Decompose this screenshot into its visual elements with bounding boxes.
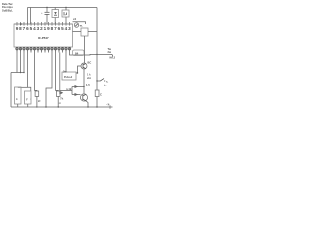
resistor R4 bbox=[56, 91, 63, 107]
wire pin16 L bbox=[70, 53, 98, 56]
IC bottom pin circles bbox=[16, 48, 71, 50]
svg-text:n.1k: n.1k bbox=[66, 87, 72, 91]
svg-text:+.: +. bbox=[104, 84, 107, 87]
wire right rail bbox=[96, 8, 98, 91]
IC bottom pin stems bbox=[17, 47, 70, 53]
wire Q2 emitter bbox=[86, 101, 88, 107]
node junction D2 top bbox=[65, 7, 66, 8]
svg-text:w.: w. bbox=[79, 23, 83, 27]
node junction bus2 bbox=[23, 72, 24, 73]
diode D1 box bbox=[52, 8, 59, 25]
svg-text:C: C bbox=[100, 93, 102, 97]
IC U1 body bbox=[14, 24, 73, 47]
wire pin6 down bbox=[35, 53, 37, 92]
svg-text:zi: zi bbox=[59, 101, 61, 105]
transistor Q1 bbox=[81, 61, 91, 70]
wire rail drop left b bbox=[30, 8, 32, 25]
resistor R2 bbox=[25, 91, 32, 107]
svg-text:7k: 7k bbox=[60, 96, 64, 100]
wire diode row lower bbox=[72, 94, 81, 96]
wire pin15 down bbox=[65, 53, 67, 73]
node junction e1 bbox=[83, 86, 84, 87]
svg-text:s.: s. bbox=[106, 81, 108, 84]
wire bottom rail bbox=[11, 106, 113, 108]
node junction rail q2 bbox=[87, 106, 88, 107]
node junction rail r4 bbox=[58, 106, 59, 107]
crystal X1 body bbox=[74, 23, 83, 28]
svg-text:IC-P547: IC-P547 bbox=[38, 36, 49, 40]
svg-text:SuB/BcL: SuB/BcL bbox=[2, 8, 13, 12]
resistor R5 bbox=[95, 90, 102, 97]
svg-text:ctz: ctz bbox=[87, 76, 91, 80]
wire rail drop left a bbox=[27, 8, 29, 25]
net label box bbox=[73, 50, 85, 56]
svg-text:r: r bbox=[30, 97, 31, 101]
wire link vertical bbox=[71, 87, 73, 95]
battery B1 box bbox=[62, 8, 69, 25]
wire pin4 down bbox=[28, 53, 31, 92]
wire pin2 down bbox=[20, 53, 22, 73]
node junction base bbox=[77, 72, 78, 73]
wire base to pot bbox=[76, 72, 78, 74]
crystal X1 wire bbox=[73, 22, 86, 24]
IC U1 top edge bbox=[14, 23, 73, 25]
svg-text:9876543219876543: 9876543219876543 bbox=[16, 26, 72, 31]
transistor Q2 bbox=[80, 94, 87, 101]
svg-text:No.2: No.2 bbox=[110, 55, 116, 59]
svg-text:F: F bbox=[26, 98, 28, 102]
wire diode row upper bbox=[72, 86, 84, 88]
diode D5 bbox=[75, 93, 79, 96]
node junction pin3 top bbox=[20, 23, 22, 25]
svg-text:84: 84 bbox=[75, 51, 79, 55]
diode D3 mark bbox=[61, 91, 64, 94]
svg-text:BC: BC bbox=[88, 61, 92, 65]
relay K1 box bbox=[73, 28, 98, 63]
wire top supply rail bbox=[28, 7, 98, 9]
wire pin3 down bbox=[23, 53, 25, 73]
svg-text:1.5: 1.5 bbox=[86, 83, 90, 87]
wire Q1 base bbox=[78, 66, 82, 73]
wire pin12 down bbox=[56, 53, 59, 92]
wire pin11 down jog bbox=[46, 53, 52, 108]
wire R1 feed bbox=[18, 86, 28, 88]
wire mid right branch bbox=[97, 80, 100, 82]
svg-text:P.du.d: P.du.d bbox=[64, 75, 72, 79]
wire right branch upper bbox=[97, 53, 112, 55]
capacitor C3 bbox=[41, 8, 50, 25]
svg-text:+: + bbox=[41, 11, 43, 15]
potentiometer P1 box bbox=[62, 69, 76, 80]
wire left drop to rail bbox=[10, 73, 12, 108]
node junction bus1 bbox=[20, 72, 21, 73]
wire gnd bus bbox=[11, 72, 24, 74]
IC top pin stubs bbox=[17, 22, 70, 26]
wire Q1 emitter down bbox=[83, 69, 85, 94]
node junction rail r3 bbox=[36, 106, 37, 107]
wire pin13 down bbox=[59, 53, 61, 95]
switch S1 bbox=[96, 79, 108, 84]
wire pin1 down bbox=[16, 53, 18, 73]
resistor R1 bbox=[15, 87, 22, 107]
svg-text:c4: c4 bbox=[73, 17, 77, 21]
node junction C3 top bbox=[46, 7, 47, 8]
diode D4 bbox=[75, 85, 79, 88]
wire pot feed bbox=[60, 90, 72, 92]
resistor R3 bbox=[30, 91, 41, 107]
node junction right branch bbox=[96, 54, 97, 55]
node junction rail right bbox=[96, 106, 97, 107]
node junction rail p11 bbox=[45, 106, 46, 107]
svg-text:~y.: ~y. bbox=[106, 102, 110, 106]
